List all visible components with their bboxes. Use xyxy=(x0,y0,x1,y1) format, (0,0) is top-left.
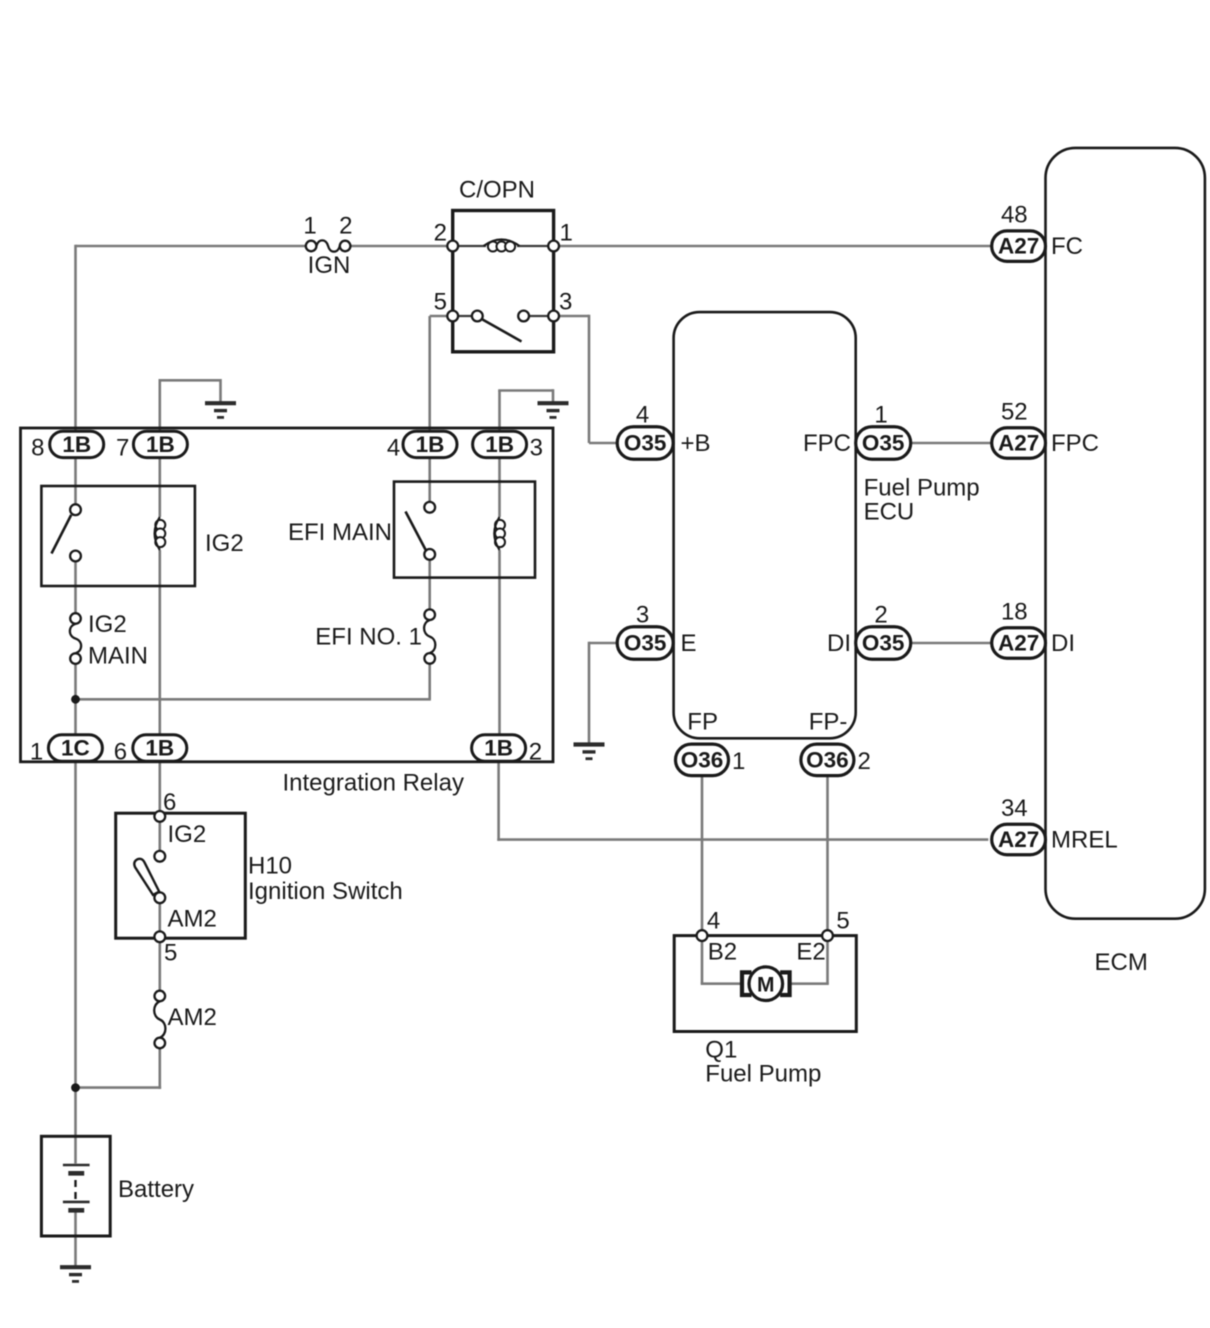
svg-text:1B: 1B xyxy=(145,735,174,760)
svg-text:O35: O35 xyxy=(862,430,905,455)
svg-text:C/OPN: C/OPN xyxy=(459,177,535,204)
svg-text:FP-: FP- xyxy=(809,709,848,736)
svg-text:MREL: MREL xyxy=(1051,827,1118,854)
svg-text:Battery: Battery xyxy=(118,1176,194,1203)
svg-text:1B: 1B xyxy=(485,432,514,457)
svg-text:Q1: Q1 xyxy=(705,1037,737,1064)
svg-text:6: 6 xyxy=(163,789,176,816)
svg-text:52: 52 xyxy=(1001,399,1028,426)
svg-text:O36: O36 xyxy=(806,747,849,772)
svg-text:4: 4 xyxy=(387,435,400,462)
svg-text:3: 3 xyxy=(530,435,543,462)
svg-text:2: 2 xyxy=(874,602,887,629)
svg-text:1B: 1B xyxy=(416,432,445,457)
svg-text:E2: E2 xyxy=(796,939,825,966)
svg-text:2: 2 xyxy=(434,220,447,247)
svg-text:A27: A27 xyxy=(998,430,1039,455)
svg-text:5: 5 xyxy=(836,908,849,935)
svg-text:3: 3 xyxy=(636,602,649,629)
svg-text:Fuel Pump: Fuel Pump xyxy=(705,1061,821,1088)
svg-text:ECM: ECM xyxy=(1095,949,1148,976)
svg-text:EFI NO. 1: EFI NO. 1 xyxy=(315,624,422,651)
svg-text:1: 1 xyxy=(874,402,887,429)
svg-text:34: 34 xyxy=(1001,795,1028,822)
svg-text:1B: 1B xyxy=(484,735,513,760)
svg-text:18: 18 xyxy=(1001,599,1028,626)
svg-text:AM2: AM2 xyxy=(168,1004,217,1031)
svg-text:4: 4 xyxy=(636,402,649,429)
svg-text:IG2: IG2 xyxy=(88,611,127,638)
svg-text:+B: +B xyxy=(681,430,711,457)
svg-text:8: 8 xyxy=(31,435,44,462)
svg-text:IG2: IG2 xyxy=(205,530,244,557)
svg-text:Integration Relay: Integration Relay xyxy=(283,770,464,797)
svg-text:IGN: IGN xyxy=(308,252,351,279)
svg-text:O35: O35 xyxy=(624,430,667,455)
svg-text:FC: FC xyxy=(1051,233,1083,260)
svg-text:E: E xyxy=(681,630,697,657)
svg-text:1B: 1B xyxy=(62,432,91,457)
svg-text:2: 2 xyxy=(339,213,352,240)
svg-text:A27: A27 xyxy=(998,630,1039,655)
svg-text:1: 1 xyxy=(732,748,745,775)
svg-text:EFI MAIN: EFI MAIN xyxy=(288,519,392,546)
svg-text:1C: 1C xyxy=(61,735,90,760)
svg-text:A27: A27 xyxy=(998,234,1039,259)
svg-text:O35: O35 xyxy=(624,630,667,655)
svg-text:B2: B2 xyxy=(708,939,737,966)
svg-text:IG2: IG2 xyxy=(168,821,207,848)
svg-text:DI: DI xyxy=(827,630,851,657)
svg-text:O36: O36 xyxy=(681,747,724,772)
svg-text:3: 3 xyxy=(559,289,572,316)
svg-text:2: 2 xyxy=(529,739,542,766)
svg-text:2: 2 xyxy=(858,748,871,775)
svg-text:7: 7 xyxy=(116,435,129,462)
svg-text:AM2: AM2 xyxy=(168,906,217,933)
svg-text:ECU: ECU xyxy=(864,498,915,525)
svg-text:FP: FP xyxy=(687,709,718,736)
svg-text:6: 6 xyxy=(114,739,127,766)
svg-text:4: 4 xyxy=(707,908,720,935)
svg-text:1: 1 xyxy=(30,739,43,766)
svg-text:FPC: FPC xyxy=(1051,430,1099,457)
svg-text:1B: 1B xyxy=(146,432,175,457)
svg-text:MAIN: MAIN xyxy=(88,643,148,670)
svg-text:H10: H10 xyxy=(248,853,292,880)
svg-text:A27: A27 xyxy=(998,827,1039,852)
svg-text:O35: O35 xyxy=(862,630,905,655)
svg-text:M: M xyxy=(757,973,775,996)
svg-text:FPC: FPC xyxy=(803,430,851,457)
svg-text:5: 5 xyxy=(434,289,447,316)
svg-text:1: 1 xyxy=(560,220,573,247)
svg-text:1: 1 xyxy=(303,213,316,240)
svg-text:DI: DI xyxy=(1051,630,1075,657)
svg-text:48: 48 xyxy=(1001,202,1028,229)
svg-text:5: 5 xyxy=(164,940,177,967)
svg-text:Ignition Switch: Ignition Switch xyxy=(248,878,403,905)
